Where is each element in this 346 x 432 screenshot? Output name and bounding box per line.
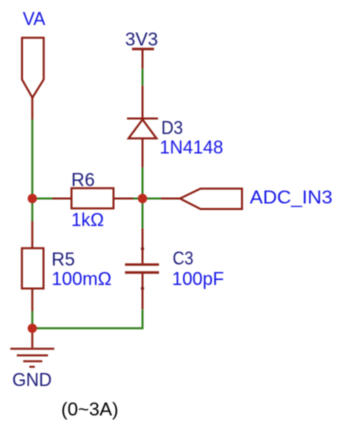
wire C3 bottom pin to corner and node C xyxy=(32,309,142,328)
svg-text:D3: D3 xyxy=(161,117,183,138)
wire R6 right pin to node B xyxy=(133,198,143,200)
svg-text:1kΩ: 1kΩ xyxy=(71,209,104,230)
svg-text:100pF: 100pF xyxy=(172,268,224,289)
wire VA to node A xyxy=(31,120,33,199)
wire 3V3 to D3 cathode pin xyxy=(142,69,144,86)
svg-text:(0~3A): (0~3A) xyxy=(61,399,118,420)
diode D3 xyxy=(127,86,158,168)
wire node A to R6 left pin xyxy=(32,198,52,200)
port VA xyxy=(22,38,44,120)
capacitor C3 xyxy=(125,228,159,309)
svg-text:R6: R6 xyxy=(71,169,95,190)
svg-text:R5: R5 xyxy=(52,248,75,269)
junction node A xyxy=(28,194,37,203)
wire R5 bottom pin to node C xyxy=(31,311,33,328)
svg-text:100mΩ: 100mΩ xyxy=(52,268,112,289)
ground xyxy=(10,328,54,367)
wire node A to R5 top pin xyxy=(31,199,33,222)
wire node B to C3 top pin xyxy=(142,199,144,229)
wire node B to ADC_IN3 port pin xyxy=(143,198,162,200)
svg-text:GND: GND xyxy=(12,369,52,390)
resistor R5 xyxy=(22,221,44,311)
wire D3 anode to node B xyxy=(142,167,144,198)
port ADC_IN3 xyxy=(161,189,242,209)
svg-text:1N4148: 1N4148 xyxy=(160,137,224,158)
svg-text:ADC_IN3: ADC_IN3 xyxy=(250,187,333,209)
junction node C xyxy=(28,324,37,333)
junction node B xyxy=(138,194,147,203)
resistor R6 xyxy=(53,188,134,208)
svg-text:3V3: 3V3 xyxy=(125,28,158,49)
power flag 3V3 xyxy=(132,49,154,69)
svg-text:C3: C3 xyxy=(173,247,194,268)
svg-text:VA: VA xyxy=(23,8,46,29)
